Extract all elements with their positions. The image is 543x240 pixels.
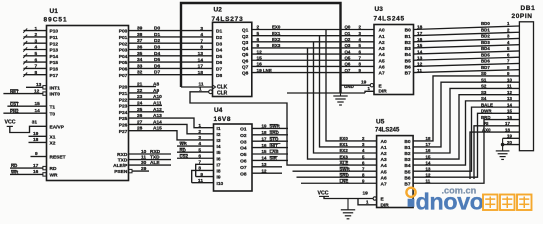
- svg-text:74LS245: 74LS245: [375, 127, 400, 133]
- svg-text:4: 4: [200, 32, 203, 38]
- svg-text:BD4: BD4: [481, 46, 490, 51]
- wire EX3 down to U5 A3: [308, 48, 377, 159]
- svg-text:D7: D7: [154, 70, 160, 76]
- svg-text:15: 15: [257, 55, 263, 61]
- svg-text:A1: A1: [381, 145, 387, 151]
- svg-text:11: 11: [199, 81, 204, 87]
- svg-text:15: 15: [35, 101, 41, 107]
- svg-text:P12: P12: [50, 41, 59, 47]
- svg-text:12: 12: [257, 49, 263, 55]
- svg-text:BALE: BALE: [481, 102, 493, 107]
- svg-text:P04: P04: [119, 54, 128, 60]
- svg-text:T1: T1: [50, 104, 56, 110]
- svg-text:33: 33: [137, 63, 143, 69]
- svg-text:B7: B7: [404, 181, 410, 187]
- svg-text:EX2: EX2: [272, 37, 281, 42]
- svg-text:11: 11: [198, 178, 203, 184]
- svg-text:1: 1: [198, 123, 201, 129]
- svg-text:16: 16: [507, 115, 512, 120]
- svg-text:P05: P05: [119, 60, 128, 66]
- svg-text:32: 32: [137, 70, 143, 76]
- svg-text:A0: A0: [381, 139, 387, 145]
- svg-text:74LS245: 74LS245: [374, 15, 405, 22]
- thick wire from U2 CLK over top to U3 E node: [181, 3, 341, 93]
- svg-text:BRD: BRD: [481, 115, 491, 120]
- U5 pin19 E wire with bubble: [324, 196, 373, 198]
- svg-text:INT1: INT1: [50, 85, 61, 91]
- wire U5 B3 up to DB1 pin 12: [413, 95, 519, 159]
- svg-text:A7: A7: [379, 71, 385, 77]
- svg-text:6: 6: [257, 37, 260, 43]
- svg-text:O5: O5: [240, 152, 247, 158]
- svg-text:D1: D1: [216, 29, 222, 35]
- svg-text:BD0: BD0: [481, 21, 490, 26]
- svg-text:I8: I8: [217, 169, 221, 175]
- svg-text:12: 12: [262, 168, 267, 173]
- wire A14 P26 to U4 pin2: [129, 124, 214, 133]
- svg-text:18: 18: [198, 70, 204, 76]
- svg-text:P26: P26: [119, 123, 128, 129]
- svg-text:38: 38: [137, 32, 143, 38]
- svg-text:I1: I1: [217, 126, 221, 132]
- svg-text:35: 35: [137, 51, 143, 57]
- svg-text:A7: A7: [381, 181, 387, 187]
- wire U2 Q6 (pin 15) to U3 A5 (pin 7): [252, 59, 374, 61]
- svg-text:EA/VP: EA/VP: [50, 125, 65, 131]
- svg-text:P20: P20: [119, 85, 128, 91]
- IC U3 74LS245 body: [374, 25, 414, 95]
- svg-text:12: 12: [34, 88, 40, 94]
- wire U1 P00 (pin 39) to U2 D1, net D0: [129, 30, 213, 32]
- svg-text:O8: O8: [240, 171, 247, 177]
- svg-text:30: 30: [141, 160, 147, 166]
- svg-text:AX0: AX0: [482, 127, 491, 132]
- U4 O1 pin 19 stub SWR: [252, 127, 288, 129]
- svg-text:A2: A2: [381, 151, 387, 157]
- svg-text:19: 19: [363, 190, 369, 196]
- svg-text:24: 24: [137, 101, 143, 107]
- svg-text:A4: A4: [381, 163, 387, 169]
- ground symbol below DB1: [496, 150, 510, 152]
- svg-text:D3: D3: [216, 41, 222, 47]
- svg-text:BD5: BD5: [481, 52, 490, 57]
- svg-text:VCC: VCC: [5, 120, 16, 126]
- svg-text:2: 2: [257, 25, 260, 31]
- svg-text:O2: O2: [240, 133, 247, 139]
- svg-text:10: 10: [507, 77, 512, 82]
- svg-text:EX3: EX3: [340, 154, 349, 159]
- svg-text:Q7: Q7: [345, 68, 351, 73]
- U4 pin5 stub net RD: [177, 151, 214, 153]
- U1 P23 stub, net A11: [129, 105, 163, 107]
- U1 pin31 EA/VP wire from VCC: [10, 126, 47, 132]
- wire U1 P05 (pin 34) to U2 D6, net D5: [129, 61, 213, 63]
- svg-text:I2: I2: [217, 132, 221, 138]
- svg-text:A5: A5: [381, 169, 387, 175]
- U1 pin29 PSEN stub: [129, 169, 132, 172]
- U3 ground node wire: [287, 92, 365, 94]
- wire U3 B1 (pin 17) to DB1 pin 2, net BD1: [414, 32, 520, 35]
- svg-text:BD6: BD6: [481, 59, 490, 64]
- wire U5 B1 up to DB1 pin 10: [413, 82, 519, 147]
- wire EX0 down to U5 A0: [326, 30, 377, 141]
- svg-text:U2: U2: [214, 7, 223, 14]
- U1 pin 8 P17 wire+label: [24, 74, 47, 76]
- DB1 pin18 wire net AX0: [470, 132, 519, 179]
- svg-text:Q5: Q5: [242, 52, 249, 58]
- svg-text:16: 16: [417, 37, 423, 43]
- watermark idnovo.com.cn logo: [406, 188, 415, 197]
- svg-text:21: 21: [137, 82, 143, 88]
- svg-text:DWR: DWR: [481, 109, 492, 114]
- svg-text:WR: WR: [50, 173, 59, 179]
- svg-text:13: 13: [36, 82, 42, 88]
- DB1 pin19 wire: [503, 137, 520, 139]
- svg-text:RESET: RESET: [50, 155, 66, 161]
- svg-text:18: 18: [417, 25, 423, 31]
- U1 pin19 X1 wire: [29, 135, 47, 137]
- svg-text:12: 12: [507, 90, 512, 95]
- wire U3 B4 (pin 14) to DB1 pin 5, net BD4: [414, 51, 520, 54]
- svg-text:X2: X2: [50, 141, 56, 147]
- svg-text:P01: P01: [119, 35, 128, 41]
- svg-text:74LS273: 74LS273: [212, 16, 244, 23]
- svg-text:B3: B3: [404, 157, 410, 163]
- svg-text:T0: T0: [50, 111, 56, 117]
- svg-text:S4: S4: [481, 96, 487, 101]
- svg-text:17: 17: [262, 136, 267, 141]
- svg-text:3: 3: [200, 26, 203, 32]
- svg-text:B4: B4: [404, 163, 410, 169]
- U1 pin18 X2 wire: [29, 141, 47, 143]
- wire U1 P02 (pin 37) to U2 D3, net D2: [129, 42, 213, 44]
- svg-text:U5: U5: [376, 118, 385, 125]
- svg-text:P24: P24: [119, 110, 128, 116]
- svg-text:O3: O3: [240, 139, 247, 145]
- U1 pin12 INT0 wire + net NET: [3, 93, 43, 95]
- svg-text:TXD: TXD: [150, 155, 160, 161]
- svg-text:17: 17: [505, 121, 510, 126]
- wire U5 B0 up to DB1 pin 9: [413, 76, 519, 141]
- wire U2 Q4 (pin 9) to U3 A3 (pin 5): [252, 47, 374, 49]
- svg-text:Q2: Q2: [345, 37, 351, 42]
- svg-text:Q3: Q3: [242, 40, 249, 46]
- svg-text:S1: S1: [481, 77, 487, 82]
- svg-text:A1: A1: [379, 34, 385, 40]
- svg-text:7: 7: [35, 64, 38, 70]
- svg-text:B1: B1: [405, 34, 411, 40]
- U1 pin14 T0 wire + net PN2: [3, 112, 46, 114]
- svg-text:INT0: INT0: [50, 92, 61, 98]
- svg-text:17: 17: [33, 163, 39, 169]
- svg-text:Q4: Q4: [345, 49, 351, 54]
- svg-text:12: 12: [417, 62, 423, 68]
- svg-text:29: 29: [141, 166, 147, 172]
- svg-text:4: 4: [35, 45, 38, 51]
- svg-text:B1: B1: [404, 145, 410, 151]
- svg-text:EX1: EX1: [272, 31, 281, 36]
- svg-text:D2: D2: [154, 38, 160, 44]
- svg-text:D4: D4: [216, 48, 222, 54]
- svg-text:Q2: Q2: [242, 34, 249, 40]
- svg-text:S2: S2: [481, 84, 487, 89]
- svg-text:I6: I6: [217, 156, 221, 162]
- svg-text:.com.cn: .com.cn: [442, 186, 477, 196]
- svg-text:D4: D4: [154, 51, 160, 57]
- svg-text:D6: D6: [154, 63, 160, 69]
- U1 pin9 RESET wire: [31, 156, 47, 158]
- svg-text:P27: P27: [119, 129, 128, 135]
- wire U2 Q5 (pin 12) to U3 A4 (pin 6): [252, 53, 374, 55]
- svg-text:2: 2: [35, 32, 38, 38]
- U4 O5 pin 15 stub LAB: [252, 153, 288, 155]
- U4 O2 pin 18 stub SRD: [252, 134, 288, 136]
- svg-text:D3: D3: [154, 45, 160, 51]
- svg-text:A12: A12: [153, 107, 162, 113]
- U1 P20 stub, net A8: [129, 86, 157, 88]
- svg-text:20: 20: [507, 140, 512, 145]
- IC U4 16V8 body: [214, 124, 253, 191]
- svg-text:2: 2: [198, 129, 201, 135]
- svg-text:DB1: DB1: [521, 5, 536, 12]
- svg-text:A11: A11: [153, 101, 162, 107]
- svg-text:BD2: BD2: [481, 34, 490, 39]
- svg-text:A2: A2: [379, 40, 385, 46]
- svg-text:13: 13: [417, 55, 423, 61]
- svg-text:VCC: VCC: [318, 191, 329, 197]
- svg-text:B3: B3: [405, 46, 411, 52]
- svg-text:I10: I10: [217, 181, 224, 187]
- svg-text:36: 36: [137, 45, 143, 51]
- svg-text:A9: A9: [153, 88, 159, 94]
- U1 pin 7 P16 wire+label: [24, 67, 47, 69]
- U4 O7 pin 13 stub: [252, 166, 282, 168]
- svg-text:P03: P03: [119, 48, 128, 54]
- U1 pin13 INT1 wire: [26, 86, 43, 88]
- wire U2 Q8 (pin 19) to U3 A7 (pin 9): [252, 72, 374, 74]
- svg-text:7: 7: [198, 160, 201, 166]
- svg-text:19: 19: [361, 80, 367, 86]
- svg-text:14: 14: [417, 49, 423, 55]
- wire U3 B0 (pin 18) to DB1 pin 1, net BD0: [414, 26, 520, 30]
- svg-text:Q4: Q4: [242, 46, 249, 52]
- svg-text:1: 1: [35, 26, 38, 32]
- U3 pin19 E wire with bubble, net GND: [370, 84, 373, 87]
- svg-text:11: 11: [141, 155, 146, 161]
- svg-text:Q7: Q7: [242, 65, 249, 71]
- svg-text:D5: D5: [154, 57, 160, 63]
- svg-text:GND: GND: [344, 84, 354, 89]
- svg-text:B0: B0: [405, 28, 411, 34]
- svg-text:14: 14: [35, 108, 41, 114]
- svg-text:5: 5: [35, 51, 38, 57]
- svg-text:3: 3: [35, 38, 38, 44]
- svg-text:9: 9: [257, 43, 260, 49]
- svg-text:P22: P22: [119, 97, 128, 103]
- wire U2 Q1 (pin 2) to U3 A0 (pin 2): [252, 29, 374, 31]
- svg-text:O1: O1: [240, 127, 247, 133]
- svg-text:P14: P14: [50, 54, 59, 60]
- svg-text:Q6: Q6: [242, 58, 249, 64]
- svg-text:D7: D7: [216, 67, 222, 73]
- U4 O8 pin 12 stub: [252, 172, 282, 174]
- U4 pin4 stub net WR: [177, 145, 214, 147]
- svg-text:19: 19: [33, 131, 39, 137]
- svg-text:O4: O4: [240, 146, 247, 152]
- U1 pin30 ALE stub: [129, 164, 172, 166]
- svg-text:B0: B0: [404, 139, 410, 145]
- svg-text:A6: A6: [379, 65, 385, 71]
- svg-text:13: 13: [198, 51, 204, 57]
- svg-text:34: 34: [137, 57, 143, 63]
- DB1 pin20 wire to ground: [503, 144, 520, 146]
- svg-text:BD7: BD7: [481, 65, 490, 70]
- svg-text:P21: P21: [119, 91, 128, 97]
- IC U1 89C51 body: [47, 26, 129, 181]
- svg-text:8: 8: [198, 166, 201, 172]
- svg-text:Q3: Q3: [345, 43, 351, 48]
- connector DB1 body: [519, 22, 533, 151]
- wire EX2 down to U5 A2: [314, 42, 377, 153]
- svg-text:14: 14: [262, 156, 267, 161]
- wire EX1 down to U5 A1: [320, 36, 377, 147]
- svg-text:U1: U1: [50, 8, 59, 15]
- svg-text:B4: B4: [405, 52, 411, 58]
- svg-text:Q1: Q1: [345, 31, 351, 36]
- svg-text:EX1: EX1: [340, 142, 349, 147]
- svg-text:I9: I9: [217, 175, 221, 181]
- svg-text:A6: A6: [381, 175, 387, 181]
- svg-text:O7: O7: [240, 165, 247, 171]
- U1 pin 4 P13 wire+label: [24, 49, 47, 51]
- svg-text:13: 13: [262, 162, 267, 167]
- wire U5 B5 up to DB1 pin 14: [413, 107, 519, 171]
- U4 O6 pin 14 stub SIR: [252, 159, 288, 161]
- svg-text:B7: B7: [405, 71, 411, 77]
- svg-text:P13: P13: [50, 48, 59, 54]
- svg-text:EX3: EX3: [272, 43, 281, 48]
- svg-text:15: 15: [507, 109, 512, 114]
- svg-text:X1: X1: [50, 134, 56, 140]
- wire U3 B2 (pin 16) to DB1 pin 3, net BD2: [414, 38, 520, 41]
- svg-text:D2: D2: [216, 35, 222, 41]
- svg-text:9: 9: [35, 151, 38, 157]
- wire U3 B6 (pin 12) to DB1 pin 7, net BD6: [414, 63, 520, 66]
- IC U5 74LS245 body: [377, 136, 414, 208]
- svg-text:Q6: Q6: [345, 62, 351, 67]
- ground symbol below U3: [340, 93, 342, 96]
- svg-text:S3: S3: [481, 90, 487, 95]
- wire U3 B7 (pin 11) to DB1 pin 8, net BD7: [414, 70, 520, 73]
- svg-text:Q1: Q1: [242, 28, 249, 34]
- svg-text:25: 25: [137, 107, 143, 113]
- svg-text:ALE: ALE: [150, 160, 160, 166]
- svg-text:Q0: Q0: [345, 25, 351, 30]
- svg-text:17: 17: [198, 64, 204, 70]
- U1 pin 5 P14 wire+label: [24, 55, 47, 57]
- svg-text:P00: P00: [119, 29, 128, 35]
- svg-text:16: 16: [33, 169, 39, 175]
- svg-text:9: 9: [200, 172, 203, 178]
- svg-text:A4: A4: [379, 52, 385, 58]
- wire U5 B7 up to DB1 pin 16: [413, 120, 519, 184]
- svg-text:D1: D1: [154, 32, 160, 38]
- wire U5 B2 up to DB1 pin 11: [413, 88, 519, 153]
- svg-text:EX2: EX2: [340, 148, 349, 153]
- wire U3 B5 (pin 13) to DB1 pin 6, net BD5: [414, 57, 520, 60]
- svg-text:4: 4: [198, 141, 201, 147]
- svg-text:20PIN: 20PIN: [512, 13, 533, 20]
- svg-text:14: 14: [507, 102, 512, 107]
- svg-text:16: 16: [257, 62, 263, 68]
- U1 pin17 RD wire + net RD: [10, 167, 43, 169]
- svg-text:39: 39: [137, 26, 143, 32]
- U1 pin 1 P10 wire+label: [24, 30, 47, 32]
- U1 pin10 RXD stub: [129, 153, 172, 155]
- IC U2 74LS273 body: [213, 22, 252, 96]
- U1 pin16 WR wire + net WR: [10, 173, 43, 175]
- svg-text:B5: B5: [405, 58, 411, 64]
- wire U1 P01 (pin 38) to U2 D2, net D1: [129, 36, 213, 38]
- svg-text:11: 11: [417, 68, 422, 74]
- svg-text:A3: A3: [379, 46, 385, 52]
- U1 P22 stub, net A10: [129, 98, 161, 100]
- svg-text:I5: I5: [217, 150, 221, 156]
- svg-text:B6: B6: [405, 65, 411, 71]
- svg-text:A0: A0: [379, 28, 385, 34]
- svg-text:7: 7: [200, 38, 203, 44]
- svg-text:11: 11: [507, 84, 512, 89]
- svg-text:23: 23: [137, 94, 143, 100]
- svg-text:TXD: TXD: [118, 158, 128, 164]
- svg-text:37: 37: [137, 38, 143, 44]
- svg-text:A5: A5: [379, 58, 385, 64]
- wire U1 P06 (pin 33) to U2 D7, net D6: [129, 67, 213, 69]
- svg-text:10: 10: [141, 149, 147, 155]
- svg-text:P25: P25: [119, 116, 128, 122]
- U4 O3 pin 17 stub STO: [252, 140, 288, 142]
- wire U1 P04 (pin 35) to U2 D5, net D4: [129, 55, 213, 57]
- U1 P24 stub, net A12: [129, 111, 165, 113]
- svg-text:6: 6: [35, 57, 38, 63]
- svg-text:A8: A8: [153, 82, 159, 88]
- wire U5 B4 up to DB1 pin 13: [413, 101, 519, 165]
- svg-text:19: 19: [257, 68, 263, 74]
- svg-text:16V8: 16V8: [214, 116, 232, 123]
- svg-text:14: 14: [198, 57, 204, 63]
- svg-text:B5: B5: [404, 169, 410, 175]
- svg-text:P15: P15: [50, 60, 59, 66]
- svg-text:PSEN: PSEN: [114, 169, 128, 175]
- U1 pin 2 P11 wire+label: [24, 36, 47, 38]
- svg-text:P11: P11: [50, 35, 59, 41]
- svg-text:ALE/P: ALE/P: [113, 163, 128, 169]
- svg-text:5: 5: [198, 147, 201, 153]
- U5 pin1 DIR wire: [358, 199, 377, 205]
- svg-text:89C51: 89C51: [44, 17, 68, 24]
- svg-text:RI: RI: [484, 121, 488, 126]
- svg-text:19: 19: [507, 134, 512, 139]
- svg-text:P23: P23: [119, 104, 128, 110]
- svg-text:18: 18: [33, 137, 39, 143]
- wire U1 P03 (pin 36) to U2 D4, net D3: [129, 49, 213, 51]
- svg-text:D0: D0: [154, 26, 160, 32]
- svg-text:B2: B2: [405, 40, 411, 46]
- U4 pin7-pin9 wire: [196, 164, 214, 176]
- svg-text:RXD: RXD: [117, 152, 128, 158]
- U1 pin11 TXD stub: [129, 159, 172, 161]
- U2 pin1 CLR wire with bubble, long route to U5 A4: [209, 90, 213, 94]
